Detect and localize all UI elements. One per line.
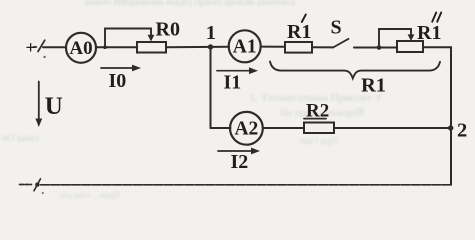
svg-text:I0: I0 <box>109 70 127 92</box>
svg-text:1: 1 <box>206 22 216 44</box>
svg-text:+: + <box>26 38 36 58</box>
svg-text:2: 2 <box>457 120 467 142</box>
svg-text:A1: A1 <box>233 37 257 58</box>
svg-text:R2: R2 <box>306 101 329 122</box>
svg-text:I2: I2 <box>231 151 249 173</box>
svg-text:I1: I1 <box>224 72 242 94</box>
svg-text:R1: R1 <box>361 75 386 97</box>
svg-text:R0: R0 <box>156 19 180 41</box>
svg-text:R1: R1 <box>417 22 441 44</box>
svg-text:U: U <box>45 93 63 120</box>
svg-text:A0: A0 <box>69 38 92 59</box>
svg-text:R1: R1 <box>287 21 311 43</box>
svg-text:S: S <box>331 17 342 39</box>
svg-text:A2: A2 <box>234 119 258 140</box>
